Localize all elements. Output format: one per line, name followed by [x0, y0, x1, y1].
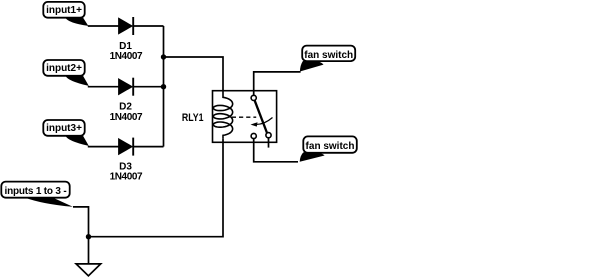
svg-text:inputs 1 to 3 -: inputs 1 to 3 - — [4, 186, 66, 197]
svg-text:fan switch: fan switch — [306, 141, 355, 152]
relay dashed actuation line — [232, 116, 256, 118]
diode D1 — [119, 17, 134, 35]
relay contact NO (bottom left) — [251, 133, 256, 138]
relay actuation arrow — [251, 118, 273, 127]
svg-text:1N4007: 1N4007 — [110, 112, 143, 123]
diode D2 — [119, 78, 134, 96]
wire input3 to D3 — [88, 146, 119, 148]
relay coil — [213, 91, 232, 139]
wire inputs-minus to ground rail — [73, 207, 89, 264]
svg-text:1N4007: 1N4007 — [110, 172, 143, 183]
node junction rail — [86, 234, 91, 239]
svg-text:input1+: input1+ — [46, 5, 82, 16]
svg-text:1N4007: 1N4007 — [110, 51, 143, 62]
ground — [76, 264, 101, 276]
label input3+ — [43, 120, 89, 146]
wire coil to bottom rail — [89, 139, 224, 237]
node junction D2-bus — [161, 84, 166, 89]
svg-text:input3+: input3+ — [46, 123, 82, 134]
wire input2 to D2 — [88, 86, 119, 88]
relay switch arm — [255, 100, 267, 132]
wire D3 cathode to bus — [134, 146, 164, 148]
wire bus to relay coil — [164, 57, 224, 91]
wire input1 to D1 — [88, 25, 119, 27]
relay contact NC (bottom right) — [266, 133, 271, 138]
svg-text:input2+: input2+ — [46, 63, 82, 74]
relay contact common (top) — [251, 95, 256, 100]
wire common contact to fan switch (top) — [254, 72, 301, 95]
label fan switch (top) — [300, 46, 355, 72]
relay NC stub wire — [268, 138, 270, 148]
diode D3 — [119, 138, 134, 156]
label input1+ — [43, 2, 88, 26]
wire bus vertical — [163, 26, 165, 147]
wire D2 cathode to bus — [134, 86, 164, 88]
node junction bus-coil — [161, 54, 166, 59]
label input2+ — [43, 60, 89, 86]
svg-text:fan switch: fan switch — [304, 50, 353, 61]
label inputs 1 to 3 - — [1, 182, 73, 207]
relay RLY1 box — [213, 91, 277, 143]
svg-text:RLY1: RLY1 — [182, 112, 204, 124]
label fan switch (bottom) — [300, 136, 357, 161]
wire D1 cathode to bus — [134, 25, 164, 27]
wire NO contact to fan switch (bottom) — [254, 139, 298, 162]
